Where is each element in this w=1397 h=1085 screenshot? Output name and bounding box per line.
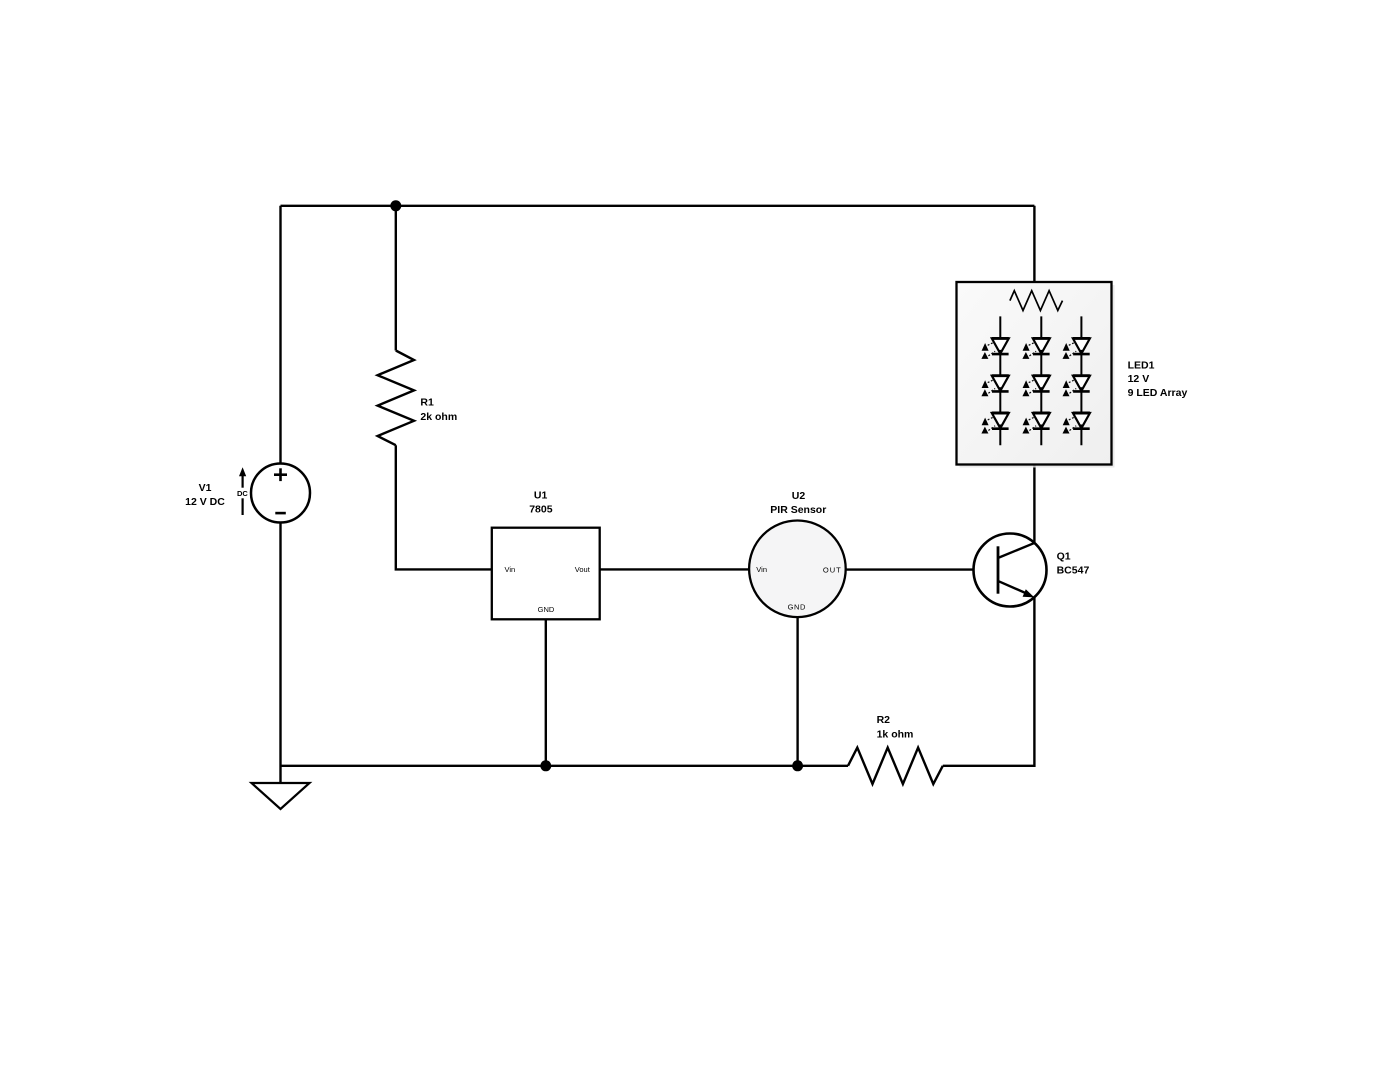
svg-text:9 LED Array: 9 LED Array [1128, 387, 1188, 399]
svg-text:1k ohm: 1k ohm [877, 729, 914, 741]
wire: U2 OUT to Q1 base [846, 568, 998, 570]
LED1 internal resistor [1010, 291, 1063, 311]
svg-text:PIR Sensor: PIR Sensor [770, 504, 826, 516]
voltage source V1 [251, 464, 310, 523]
svg-text:GND: GND [538, 605, 555, 614]
LED1 array box [957, 282, 1112, 465]
wire: top supply rail [281, 205, 1035, 207]
wire: U1 Vout to U2 Vin [600, 568, 749, 570]
LED r2c3 [1063, 376, 1090, 397]
svg-text:V1: V1 [199, 482, 212, 494]
resistor R2 [848, 748, 943, 784]
LED r3c1 [981, 413, 1008, 434]
svg-text:Q1: Q1 [1057, 551, 1071, 563]
wire: R1 bottom lead to U1 Vin [396, 445, 492, 569]
svg-text:DC: DC [237, 489, 248, 498]
junction node: top rail / R1 [390, 200, 401, 211]
wire: V1 negative lead down to bottom rail [279, 522, 281, 783]
svg-text:LED1: LED1 [1128, 360, 1155, 372]
svg-text:R2: R2 [877, 714, 891, 726]
svg-text:U1: U1 [534, 490, 548, 502]
LED1 array box shadow [960, 285, 1115, 468]
resistor R1 [378, 351, 414, 446]
LED r1c1 [981, 338, 1008, 359]
svg-text:R1: R1 [420, 397, 434, 409]
junction node: bottom rail / U1 GND [540, 760, 551, 771]
LED r2c1 [981, 376, 1008, 397]
LED column 1 wire [999, 316, 1001, 445]
svg-text:12 V: 12 V [1128, 373, 1150, 385]
LED column 2 wire [1040, 316, 1042, 445]
PIR sensor U2 [749, 521, 846, 618]
wire: Q1 emitter down and left to R2 [943, 597, 1035, 766]
svg-text:Vin: Vin [505, 565, 516, 574]
svg-text:Vout: Vout [575, 565, 591, 574]
LED column 3 wire [1080, 316, 1082, 445]
wire: U1 GND to bottom rail [545, 619, 547, 766]
svg-text:GND: GND [788, 603, 806, 612]
LED r2c2 [1022, 376, 1049, 397]
LED r1c2 [1022, 338, 1049, 359]
ground symbol [252, 783, 310, 809]
svg-text:BC547: BC547 [1057, 565, 1090, 577]
LED r3c2 [1022, 413, 1049, 434]
svg-text:12 V DC: 12 V DC [185, 496, 225, 508]
V1 DC annotation arrow [236, 467, 250, 515]
wire: R1 top lead from junction [395, 206, 397, 351]
wire: LED1 top lead from rail [1033, 206, 1035, 282]
regulator U1 7805 [492, 528, 600, 620]
svg-text:7805: 7805 [529, 504, 553, 516]
wire: LED1 bottom to Q1 collector [1033, 464, 1035, 543]
LED r3c3 [1063, 413, 1090, 434]
wire: bottom ground rail [281, 765, 849, 767]
svg-text:Vin: Vin [756, 565, 767, 574]
transistor Q1 [974, 534, 1047, 607]
svg-text:U2: U2 [792, 490, 806, 502]
wire: U2 GND to bottom rail [796, 617, 798, 766]
wire: V1 positive lead up to top rail [279, 206, 281, 464]
svg-text:2k ohm: 2k ohm [420, 411, 457, 423]
LED r1c3 [1063, 338, 1090, 359]
svg-text:OUT: OUT [823, 566, 842, 575]
junction node: bottom rail / U2 GND [792, 760, 803, 771]
